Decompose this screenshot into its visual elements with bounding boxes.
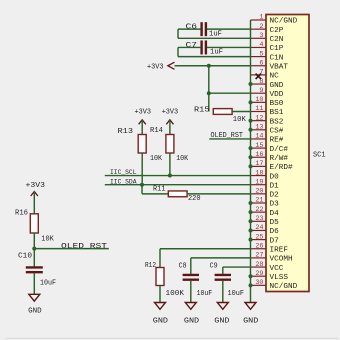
wire R16 bottom lead: [33, 233, 35, 267]
power +3V3 arrow R16: [31, 192, 38, 197]
svg-text:29: 29: [255, 270, 263, 278]
wire VDD pin9: [209, 92, 251, 94]
svg-text:3: 3: [259, 32, 263, 40]
svg-text:BS0: BS0: [270, 100, 284, 108]
resistor R13 body: [138, 135, 146, 154]
svg-text:15: 15: [255, 142, 263, 150]
svg-text:100K: 100K: [166, 290, 185, 298]
pin 12 BS2: [251, 114, 284, 126]
svg-text:D/C#: D/C#: [270, 146, 289, 154]
svg-text:10K: 10K: [176, 155, 189, 163]
ground symbol C8: [185, 303, 196, 310]
svg-text:D0: D0: [270, 173, 280, 181]
junction rail junction pin 30: [249, 283, 253, 287]
resistor R14 body: [166, 135, 174, 154]
wire OLED_RST stub: [34, 248, 109, 250]
junction SCL junction R14: [168, 174, 172, 178]
svg-text:9: 9: [259, 87, 263, 95]
junction rail junction pin 13: [249, 128, 253, 132]
wire VCOMH pin27: [191, 257, 251, 259]
svg-text:IIC_SCL: IIC_SCL: [110, 169, 137, 177]
svg-text:IREF: IREF: [270, 246, 289, 254]
pin 23 D5: [251, 215, 280, 227]
svg-text:R16: R16: [15, 209, 28, 217]
svg-text:C10: C10: [18, 252, 33, 260]
svg-text:R11: R11: [153, 185, 166, 193]
svg-text:GND: GND: [184, 317, 199, 325]
IC SC1 (SSD1306 driver): [266, 15, 309, 292]
svg-text:5: 5: [259, 50, 263, 58]
junction rail junction pin 8: [249, 82, 253, 86]
wire VBAT to VDD vertical: [208, 66, 210, 112]
junction rail junction pin 16: [249, 155, 253, 159]
svg-text:10K: 10K: [150, 155, 163, 163]
pin 17 E/RD#: [251, 160, 293, 172]
wire C10 bottom lead: [33, 273, 35, 294]
junction OLED_RST junction: [32, 247, 36, 251]
svg-text:C6: C6: [186, 24, 198, 32]
pin 16 R/W#: [251, 151, 289, 163]
wire GND rail vertical: [250, 20, 252, 303]
resistor R15 body: [213, 109, 232, 115]
pin 29 VLSS: [251, 270, 289, 282]
svg-text:1: 1: [259, 14, 263, 22]
pin 27 VCOMH: [251, 252, 293, 264]
svg-text:RE#: RE#: [270, 137, 284, 145]
junction rail junction pin 29: [249, 274, 253, 278]
svg-text:24: 24: [255, 224, 263, 232]
wire R11 to pin20: [187, 193, 250, 195]
pin 2 C2P: [251, 23, 284, 35]
svg-text:C2N: C2N: [270, 36, 284, 44]
svg-text:4: 4: [259, 41, 263, 49]
junction rail junction pin 17: [249, 164, 253, 168]
svg-text:VCC: VCC: [270, 265, 284, 273]
svg-text:R15: R15: [194, 106, 210, 114]
ground symbol rail: [245, 303, 256, 310]
no-connect X on pin 7: [256, 74, 261, 79]
svg-text:C1N: C1N: [270, 54, 284, 62]
svg-text:16: 16: [255, 151, 263, 159]
capacitor C10: [26, 267, 43, 272]
pin 6 VBAT: [251, 59, 289, 71]
svg-text:2: 2: [259, 23, 263, 31]
svg-text:D4: D4: [270, 210, 280, 218]
pin 22 D4: [251, 206, 280, 218]
pin 5 C1N: [251, 50, 284, 62]
junction rail junction pin 22: [249, 210, 253, 214]
resistor R12 body: [156, 268, 164, 286]
svg-text:E/RD#: E/RD#: [270, 164, 293, 172]
resistor R11 body: [168, 191, 187, 197]
svg-text:D6: D6: [270, 228, 280, 236]
svg-text:11: 11: [255, 105, 263, 113]
svg-text:OLED_RST: OLED_RST: [211, 132, 244, 140]
svg-text:30: 30: [255, 279, 263, 287]
svg-text:19: 19: [255, 178, 263, 186]
power +3V3 arrow R13: [139, 120, 146, 125]
pin 1 NC/GND: [251, 14, 298, 26]
wire IIC_SCL to pin18: [105, 175, 251, 177]
junction rail junction pin 12: [249, 119, 253, 123]
svg-text:GND: GND: [153, 317, 168, 325]
svg-text:10K: 10K: [233, 116, 247, 124]
svg-text:6: 6: [259, 59, 263, 67]
wire R15 to pin11: [232, 111, 250, 113]
pin 26 IREF: [251, 242, 289, 254]
wire VBAT pin6: [175, 65, 251, 67]
wire R16 power lead: [33, 192, 35, 214]
pin 3 C2N: [251, 32, 284, 44]
svg-text:GND: GND: [243, 317, 258, 325]
pin 10 BS0: [251, 96, 284, 108]
wire IIC_SDA to pin19: [105, 184, 251, 186]
svg-text:20: 20: [255, 188, 263, 196]
pin 25 D7: [251, 233, 280, 245]
svg-text:D3: D3: [270, 201, 280, 209]
svg-text:VCOMH: VCOMH: [270, 256, 293, 264]
svg-text:+3V3: +3V3: [147, 63, 164, 71]
svg-text:27: 27: [255, 252, 263, 260]
capacitor C9: [215, 275, 231, 280]
svg-text:D7: D7: [270, 237, 280, 245]
pin 11 BS1: [251, 105, 284, 117]
svg-text:D2: D2: [270, 192, 280, 200]
pin 4 C1P: [251, 41, 284, 53]
svg-text:GND: GND: [270, 82, 284, 90]
svg-text:D1: D1: [270, 182, 280, 190]
svg-text:10: 10: [255, 96, 263, 104]
svg-text:22: 22: [255, 206, 263, 214]
svg-text:SC1: SC1: [313, 152, 326, 160]
ground symbol C10: [29, 294, 40, 301]
svg-text:GND: GND: [214, 317, 229, 325]
capacitor C6: [178, 22, 251, 38]
svg-text:BS2: BS2: [270, 118, 284, 126]
svg-text:C1P: C1P: [270, 45, 284, 53]
svg-text:+3V3: +3V3: [162, 109, 179, 117]
resistor R16 body: [30, 214, 38, 233]
svg-text:VBAT: VBAT: [270, 63, 289, 71]
pin 19 D1: [251, 178, 280, 190]
junction rail junction pin 21: [249, 201, 253, 205]
svg-text:25: 25: [255, 233, 263, 241]
svg-text:10uF: 10uF: [228, 290, 245, 298]
svg-text:10uF: 10uF: [40, 280, 56, 288]
svg-text:28: 28: [255, 261, 263, 269]
wire R11 left: [142, 193, 168, 195]
wire R14 power lead: [169, 120, 171, 135]
svg-text:NC/GND: NC/GND: [270, 18, 298, 26]
pin 20 D2: [251, 188, 280, 200]
wire R14 to SCL: [169, 153, 171, 176]
wire R12 top lead: [159, 249, 161, 268]
junction rail junction pin 15: [249, 146, 253, 150]
pin 18 D0: [251, 169, 280, 181]
wire R13 to SDA: [141, 153, 143, 185]
svg-text:VLSS: VLSS: [270, 274, 289, 282]
svg-text:OLED_RST: OLED_RST: [61, 243, 108, 251]
ground symbol C9: [217, 303, 228, 310]
svg-text:+3V3: +3V3: [135, 109, 152, 117]
pin 28 VCC: [251, 261, 284, 273]
svg-text:1uF: 1uF: [209, 30, 222, 38]
svg-text:18: 18: [255, 169, 263, 177]
svg-text:220: 220: [188, 195, 201, 203]
wire C9 top lead: [222, 267, 224, 274]
svg-text:D5: D5: [270, 219, 280, 227]
svg-text:CS#: CS#: [270, 128, 284, 136]
pin 21 D3: [251, 197, 280, 209]
svg-text:R14: R14: [150, 127, 163, 135]
wire C9 bottom lead: [222, 281, 224, 303]
pin 15 D/C#: [251, 142, 289, 154]
svg-text:R/W#: R/W#: [270, 155, 289, 163]
junction rail junction pin 24: [249, 228, 253, 232]
wire C8 top lead: [190, 258, 192, 274]
svg-text:10K: 10K: [41, 236, 54, 244]
pin 14 RE#: [251, 133, 284, 145]
svg-text:12: 12: [255, 114, 263, 122]
svg-text:R12: R12: [145, 262, 156, 270]
svg-text:1uF: 1uF: [210, 49, 223, 57]
junction rail junction pin 25: [249, 238, 253, 242]
svg-text:R13: R13: [118, 128, 134, 136]
scan artifact line: [5, 337, 338, 339]
svg-text:21: 21: [255, 197, 263, 205]
ground symbol R12: [155, 303, 166, 310]
svg-text:NC: NC: [270, 73, 280, 81]
power +3V3 arrow R14: [166, 120, 173, 125]
wire OLED_RST to pin14: [209, 138, 250, 140]
svg-text:13: 13: [255, 124, 263, 132]
svg-text:26: 26: [255, 242, 263, 250]
svg-text:IIC_SDA: IIC_SDA: [110, 178, 137, 186]
svg-text:+3V3: +3V3: [26, 182, 46, 190]
junction VBAT tap: [207, 64, 211, 68]
svg-text:C8: C8: [179, 263, 187, 271]
pin 13 CS#: [251, 124, 284, 136]
svg-text:23: 23: [255, 215, 263, 223]
pin 7 NC: [251, 69, 280, 81]
junction SDA junction R13/R11: [140, 183, 144, 187]
pin 30 NC/GND: [251, 279, 298, 291]
svg-text:VDD: VDD: [270, 91, 284, 99]
pin 9 VDD: [251, 87, 284, 99]
wire R11 left leg vertical: [141, 185, 143, 194]
pin 24 D6: [251, 224, 280, 236]
svg-text:C9: C9: [210, 263, 218, 271]
capacitor C8: [183, 275, 199, 280]
svg-text:NC/GND: NC/GND: [270, 283, 298, 291]
pin 8 GND: [251, 78, 284, 90]
power +3V3 arrow (VBAT, pointing left): [168, 62, 175, 69]
svg-text:C7: C7: [186, 42, 198, 50]
svg-text:GND: GND: [28, 307, 42, 315]
wire R13 power lead: [141, 120, 143, 135]
wire C8 bottom lead: [190, 281, 192, 303]
junction rail junction pin 23: [249, 219, 253, 223]
junction rail junction pin 10: [249, 100, 253, 104]
svg-text:17: 17: [255, 160, 263, 168]
svg-text:C2P: C2P: [270, 27, 284, 35]
wire IREF pin26: [160, 248, 251, 250]
svg-text:10uF: 10uF: [197, 290, 213, 298]
capacitor C7: [178, 40, 251, 56]
svg-text:14: 14: [255, 133, 263, 141]
svg-text:BS1: BS1: [270, 109, 284, 117]
wire VCC pin28: [223, 266, 251, 268]
wire R12 bottom lead: [159, 286, 161, 303]
junction VDD tee: [207, 91, 211, 95]
